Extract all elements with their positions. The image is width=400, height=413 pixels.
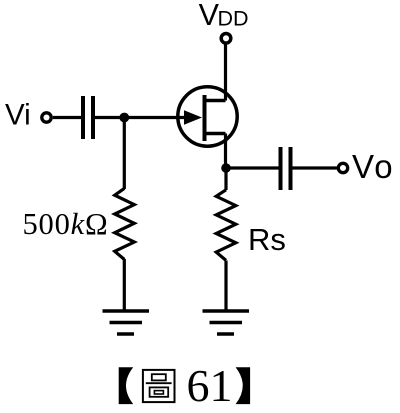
- wire Vi-to-C1: [53, 116, 81, 119]
- terminal Vo: [338, 163, 347, 172]
- wire gate-down: [123, 118, 126, 190]
- resistor Rs: [216, 190, 236, 261]
- wire R1-to-gnd: [123, 259, 126, 311]
- svg-text:V: V: [199, 0, 220, 32]
- node source junction: [221, 163, 231, 173]
- svg-text:Vo: Vo: [352, 148, 395, 185]
- caption bracket right: [236, 367, 251, 404]
- wire Rs-to-gnd: [224, 261, 227, 312]
- wire source-down: [224, 134, 227, 169]
- caption bracket left: [119, 367, 134, 404]
- svg-text:500kΩ: 500kΩ: [23, 207, 109, 241]
- wire C2-to-Vo: [293, 166, 338, 169]
- wire VDD-to-drain: [224, 44, 227, 101]
- terminal Vi: [42, 113, 51, 122]
- svg-text:Vi: Vi: [5, 99, 31, 132]
- terminal VDD: [221, 34, 231, 44]
- wire source-to-C2: [226, 166, 279, 169]
- label VDD: [199, 0, 249, 32]
- wire C1-to-gate: [95, 116, 190, 119]
- wire source-to-Rs: [224, 168, 227, 190]
- svg-text:Rs: Rs: [248, 222, 286, 257]
- ground left: [103, 311, 150, 334]
- resistor 500k: [115, 188, 135, 259]
- capacitor C1 (input): [81, 96, 85, 139]
- transistor Q1 (JFET): [178, 87, 237, 146]
- svg-text:61: 61: [187, 360, 233, 411]
- caption glyph 圖: [143, 370, 175, 402]
- node gate junction: [119, 113, 129, 123]
- svg-text:DD: DD: [218, 7, 249, 31]
- capacitor C2 (output): [279, 147, 283, 190]
- ground right: [203, 311, 250, 334]
